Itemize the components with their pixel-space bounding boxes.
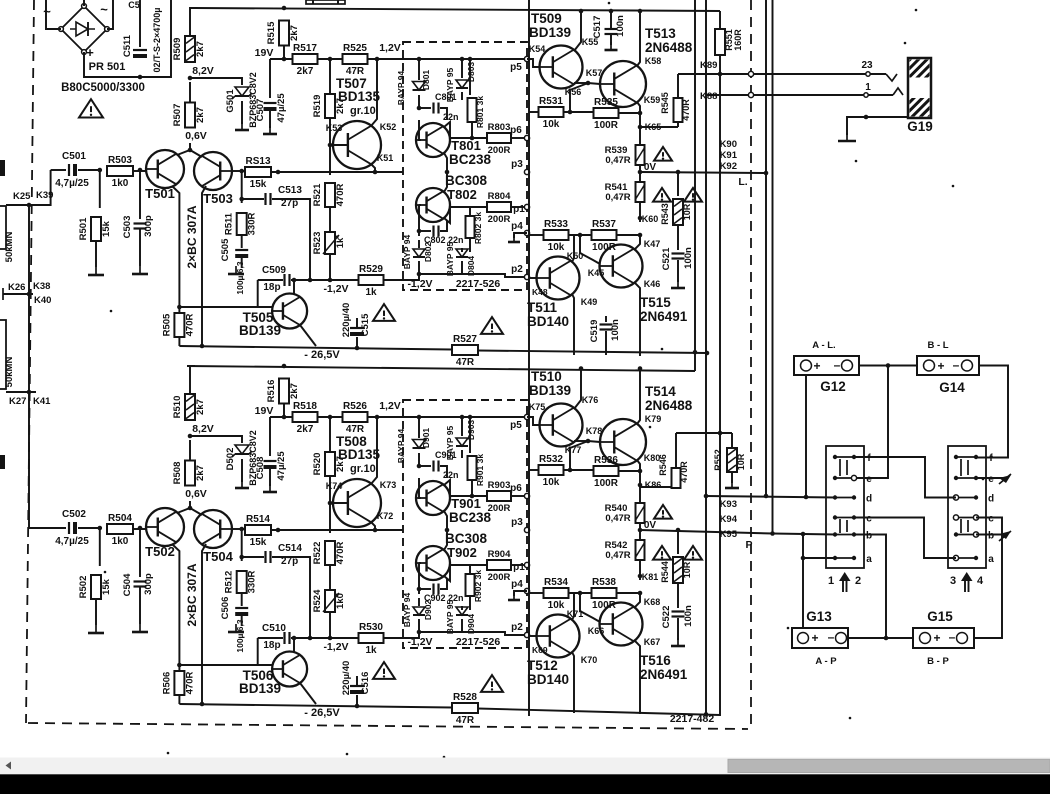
wire R502 column [99,528,101,566]
wire emitter [371,59,377,126]
wire [511,206,527,208]
wire collector [572,593,574,620]
wire collector [637,102,640,113]
wire -26,5V rail [478,351,707,354]
wire [469,565,471,574]
wire base [419,120,421,140]
svg-text:BC238: BC238 [449,510,492,525]
ground [508,234,520,242]
diode D901 BAYP94 [396,428,431,464]
svg-text:200R: 200R [488,214,511,225]
wire [610,11,612,28]
svg-text:K59: K59 [644,95,661,105]
svg-text:K79: K79 [645,414,662,424]
wire to T513 base [588,83,600,84]
svg-text:100n: 100n [615,15,626,37]
svg-text:2N6491: 2N6491 [640,667,688,682]
junction [638,574,643,579]
wire [190,366,195,394]
diode D801 BAYP94 [396,70,431,106]
junction [276,170,281,175]
wire K65 column [639,113,641,127]
wire down [570,441,588,470]
junction [188,506,193,511]
svg-text:T515: T515 [640,295,671,310]
label 19V [255,47,274,59]
svg-text:R510: R510 [172,396,183,419]
svg-text:4,7µ/25: 4,7µ/25 [55,178,89,189]
wire bridge top [83,0,85,6]
junction [568,468,573,473]
pin p2 [511,622,529,638]
svg-text:300p: 300p [143,573,154,595]
wire collector [293,280,295,294]
wire [677,583,679,608]
svg-text:R534: R534 [544,577,568,588]
wire [461,450,463,458]
label K45 [588,268,605,278]
transistor T514 2N6488 [600,384,693,465]
wire emitter [572,652,574,713]
svg-text:R509: R509 [172,38,183,61]
wire left rail [28,205,30,528]
svg-text:8,2V: 8,2V [192,423,214,435]
svg-text:K67: K67 [644,637,661,647]
ground [88,267,104,275]
resistor R537 100R [592,219,617,253]
wire base [333,144,348,146]
ground [671,280,685,288]
switch arrow [961,572,973,592]
resistor R529 1k [359,264,384,298]
label K77 [565,445,582,455]
resistor R544 10R [660,557,692,583]
label K46 [644,279,661,289]
resistor R803 200R [487,122,511,156]
wire collector [574,82,588,84]
svg-text:c: c [866,514,872,525]
svg-text:470R: 470R [335,184,346,207]
wire [291,279,358,281]
svg-text:23: 23 [861,60,873,71]
bridge rectifier PR501 [43,2,125,73]
svg-text:G501: G501 [225,89,236,113]
wire [675,433,677,468]
svg-text:R504: R504 [108,513,132,524]
junction [470,494,475,499]
diode D804 BAYP95 [445,241,476,276]
wire collector [574,440,588,442]
wire [356,695,358,706]
wire C504 column [139,528,141,577]
resistor R519 2k7 [312,94,346,118]
junction [282,364,287,369]
status bar [0,774,1050,794]
warning triangle [653,546,671,560]
junction [770,531,775,536]
svg-text:R505: R505 [161,313,172,336]
wire collector [635,593,640,607]
wire [356,318,358,328]
svg-text:K54: K54 [529,44,546,54]
junction [282,57,287,62]
wire [384,637,403,639]
svg-text:T802: T802 [447,187,477,202]
resistor R501 15k [78,217,112,241]
junction [470,136,475,141]
wire [440,466,447,478]
svg-text:2k7: 2k7 [297,424,314,435]
switch break [886,74,897,81]
svg-text:e: e [988,474,994,485]
wire emitter [637,369,640,425]
label K38 [33,281,50,292]
wire L to switch [706,496,836,498]
wire [469,59,471,95]
label K94 [720,514,738,525]
junction [375,57,380,62]
svg-text:~: ~ [100,2,108,17]
pin p1 [513,204,529,215]
resistor R538 100R [592,577,617,611]
junction [98,168,103,173]
wire [356,337,358,348]
svg-text:D902: D902 [423,600,433,621]
diode D802 BAYP94 [402,234,433,269]
wire f1 to d2 [854,457,956,498]
scrollbar track [0,758,1050,775]
wiper arrow [999,531,1011,541]
svg-text:1: 1 [865,82,871,93]
wire [272,199,310,280]
wire R552 node line [676,432,732,434]
capacitor C521 100n [661,247,694,270]
svg-text:A - L.: A - L. [812,340,835,351]
transistor T515 2N6491 [600,245,688,325]
junction [676,170,681,175]
wire base [419,562,421,564]
svg-text:BAYP 95: BAYP 95 [445,241,455,276]
svg-text:BD139: BD139 [239,681,281,696]
svg-text:1,2V: 1,2V [379,42,401,54]
resistor R503 1k0 [107,155,133,189]
wire collector [444,480,450,496]
svg-text:K40: K40 [34,295,51,306]
wire base [580,235,600,264]
wire [418,240,420,248]
resistor R551 160R [715,29,743,55]
junction [292,278,297,283]
svg-text:300p: 300p [143,215,154,237]
junction [468,57,473,62]
junction [239,555,244,560]
resistor R515 2k7 [266,21,300,46]
svg-text:R552: R552 [713,449,723,471]
wire [329,59,331,94]
wire base [527,417,540,425]
label K69 [532,645,548,655]
junction [693,350,698,355]
junction [638,125,643,130]
resistor R509 2k7 (fusible) [172,36,206,62]
resistor R801 3k [468,96,486,128]
svg-text:+: + [937,359,944,373]
speck [661,348,664,351]
junction [638,233,643,238]
capacitor C511 [122,34,147,58]
wire [569,592,592,594]
svg-text:K75: K75 [529,402,546,412]
svg-text:+: + [933,631,940,645]
svg-text:R902 3k: R902 3k [473,570,483,602]
svg-text:R523: R523 [312,232,323,255]
svg-text:K81: K81 [642,572,659,582]
svg-text:+: + [813,359,820,373]
svg-text:R802 3k: R802 3k [473,212,483,244]
ground [235,122,249,130]
wire [189,82,191,103]
label K70 [581,655,598,665]
resistor R545 470R [660,92,691,122]
svg-text:100R: 100R [594,478,619,489]
svg-text:p4: p4 [511,221,523,232]
label K73 [380,480,397,490]
capacitor C513 27p [266,185,303,209]
resistor R518 2k7 [293,401,318,435]
svg-text:d: d [866,494,872,505]
svg-text:470R: 470R [335,542,346,565]
svg-text:–: – [828,630,835,644]
junction [676,528,681,533]
junction [417,272,422,277]
wire G14 right riser [976,366,1008,458]
svg-text:–: – [949,630,956,644]
board edge dashed right [750,0,752,729]
wire [190,8,195,36]
wire emitter [444,511,447,530]
wire VAS line [258,637,283,639]
wire [133,170,146,172]
svg-text:50kMN: 50kMN [4,232,15,263]
junction [704,712,709,717]
wire [419,230,431,232]
svg-text:G15: G15 [927,609,953,624]
ground [725,480,739,488]
label 8,2V [192,423,214,435]
wire P to switch [773,534,837,535]
wire feedback line [271,171,403,173]
diode D903 BAYP95 [445,420,476,461]
wire emitter [574,369,581,410]
wire [569,234,592,236]
label L. [738,176,747,188]
speck [608,2,611,5]
svg-text:K39: K39 [36,190,53,201]
svg-text:R533: R533 [544,219,568,230]
pin p3 [511,517,529,533]
svg-text:2N6491: 2N6491 [640,309,688,324]
svg-text:L.: L. [738,176,747,188]
svg-text:15k: 15k [101,578,112,595]
junction [27,203,32,208]
label K54 [529,44,546,54]
junction [355,346,360,351]
wire [418,95,420,108]
svg-text:15k: 15k [250,537,267,548]
svg-text:BAYP 95: BAYP 95 [445,599,455,634]
wire [529,234,544,236]
capacitor C506 100u/6,3 [220,597,248,653]
label 02/T-S-2x4700u [152,8,162,73]
label 2217-482 [670,713,715,725]
svg-text:100n: 100n [683,605,694,627]
capacitor C501 4,7u/25 [55,151,89,189]
svg-text:100n: 100n [610,319,621,341]
svg-text:C509: C509 [262,265,286,276]
svg-text:C503: C503 [122,216,133,239]
label 2 [855,575,861,587]
svg-text:R535: R535 [594,97,618,108]
junction [764,494,769,499]
speck [346,753,349,756]
junction [801,556,806,561]
resistor R512 330R [224,571,258,594]
wire [619,112,640,114]
svg-text:b: b [866,531,872,542]
wire [514,591,527,596]
svg-text:19V: 19V [255,405,274,417]
label K49 [581,297,598,307]
wire C513 link [242,198,264,200]
wire -26,5V rail [179,704,452,708]
svg-text:R530: R530 [359,622,383,633]
transistor T508 BD135 [333,434,381,527]
svg-text:T901: T901 [451,496,481,511]
wire emitters [177,508,202,515]
svg-text:T513: T513 [645,26,676,41]
ground [508,592,520,600]
resistor R511 330R [224,212,258,235]
capacitor C503 300p [122,215,154,238]
resistor R541 0,47R [605,182,645,203]
svg-text:C515: C515 [360,313,371,336]
resistor R802 3k [466,212,484,244]
wire [133,528,146,530]
svg-text:K88: K88 [700,91,717,102]
wire emitter tap [189,501,191,508]
junction [705,351,710,356]
svg-text:K69: K69 [532,645,548,655]
junction [282,415,287,420]
switch S1 (contacts a-f) [826,446,872,568]
ground [605,42,618,50]
wire [639,523,641,540]
wire [329,417,331,452]
scrollbar thumb [728,759,1050,772]
wire K65 column [639,471,641,485]
resistor R504 1k0 [107,513,133,547]
wire [419,631,462,633]
label K27 [9,396,26,407]
svg-text:C505: C505 [220,238,231,261]
label -1,2V [323,641,348,653]
svg-text:C502: C502 [62,509,86,520]
svg-text:2N6488: 2N6488 [645,40,693,55]
wire emitter [300,683,316,704]
transistor T506 BD139 [239,652,307,697]
speck [649,426,652,429]
svg-text:C517: C517 [592,16,603,39]
wire [329,612,331,638]
svg-text:BD139: BD139 [239,323,281,338]
svg-text:-1,2V: -1,2V [323,641,348,653]
connector G13 [792,628,848,667]
svg-text:R903: R903 [488,480,511,491]
svg-text:~: ~ [43,4,51,19]
junction [282,6,287,11]
wire [384,279,403,281]
junction [308,636,313,641]
wire [677,260,679,282]
wire [461,261,463,274]
svg-text:K72: K72 [377,511,394,521]
wire [461,59,463,78]
junction [586,439,591,444]
label -1,2V [407,278,432,290]
pin p3 [511,159,529,175]
svg-text:160R: 160R [733,29,743,51]
svg-text:2k7: 2k7 [195,107,206,123]
wiper arrow [999,474,1011,484]
junction [177,305,182,310]
svg-text:10k: 10k [543,119,560,130]
label K59 [644,95,661,105]
svg-text:470R: 470R [679,461,689,483]
wire collector [371,522,375,530]
wire G12 left riser [805,375,807,497]
resistor R506 470R [161,671,195,695]
wire emitters [177,150,202,157]
label K26 [8,282,25,293]
wire [529,469,539,471]
wire top rail [195,8,720,11]
wire bridge ac left [46,0,61,29]
svg-text:K77: K77 [565,445,582,455]
wire [189,440,191,461]
speck [787,627,790,630]
diode D803 BAYP95 [445,62,476,103]
svg-text:K27: K27 [9,396,26,407]
warning triangle [481,317,503,334]
svg-text:R519: R519 [312,95,323,118]
svg-text:K74: K74 [326,481,343,491]
resistor R516 2k7 [266,379,300,404]
svg-text:R518: R518 [293,401,317,412]
svg-text:- 26,5V: - 26,5V [304,707,340,719]
label 1 [865,82,871,93]
resistor R510 2k7 (fusible) [172,394,206,420]
junction [638,591,643,596]
wire [461,92,463,100]
label 2217-526 [456,278,501,290]
svg-text:T510: T510 [531,369,562,384]
wire [178,695,180,704]
wire zener branch [190,78,242,85]
wire [639,485,641,503]
capacitor C801 22n [434,92,459,122]
wire [419,588,431,590]
svg-text:2k7: 2k7 [289,383,300,399]
